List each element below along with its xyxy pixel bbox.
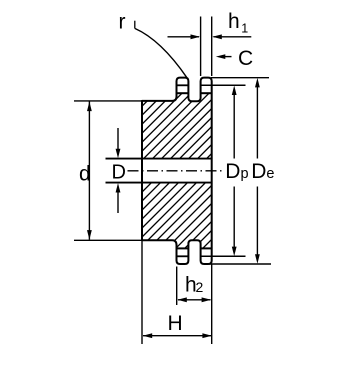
svg-text:H: H (168, 312, 183, 335)
svg-text:r: r (119, 10, 126, 33)
svg-text:D: D (112, 162, 126, 184)
svg-text:C: C (238, 47, 253, 70)
svg-text:d: d (79, 162, 91, 185)
